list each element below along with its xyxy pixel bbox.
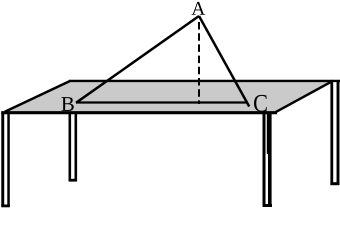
- triangle side AC: [199, 16, 249, 107]
- table leg front-right: [263, 113, 273, 207]
- tabletop left slant edge: [5, 81, 71, 112]
- triangle side BC: [76, 101, 248, 103]
- triangle side AB: [76, 16, 199, 103]
- table leg front-left: [1, 113, 10, 207]
- label C: [254, 95, 267, 112]
- tabletop front edge: [1, 111, 277, 114]
- label B: [61, 97, 73, 111]
- dashed altitude from A: [198, 22, 200, 104]
- tabletop back edge: [69, 80, 340, 82]
- table leg back-left: [69, 113, 77, 182]
- table leg back-right: [330, 81, 339, 185]
- label A: [191, 2, 205, 15]
- tabletop right slant edge: [276, 81, 334, 113]
- tabletop surface: [5, 81, 332, 112]
